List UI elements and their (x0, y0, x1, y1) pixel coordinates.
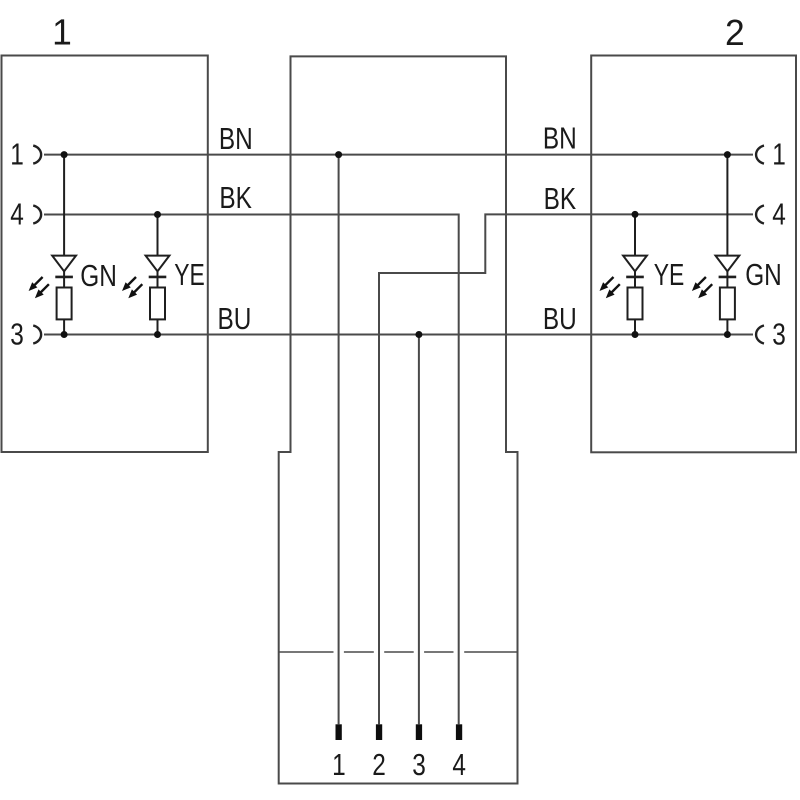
svg-text:BU: BU (543, 302, 577, 336)
svg-text:2: 2 (725, 12, 745, 53)
LED YE right assembly (623, 215, 647, 335)
LED YE left stem top (157, 215, 159, 256)
LED YE right stem bottom (634, 319, 636, 334)
LED GN left cathode bar (55, 276, 73, 279)
LED GN right stem mid (726, 271, 728, 287)
junction BU-LED YE left (154, 331, 161, 338)
wire pin3 drop (418, 335, 420, 725)
svg-text:GN: GN (745, 258, 782, 292)
LED YE right cathode bar (626, 276, 644, 279)
junction BK-LED YE right (632, 211, 639, 218)
LED YE right stem top (634, 215, 636, 256)
wire BK left (44, 215, 459, 725)
svg-text:BK: BK (544, 182, 577, 216)
pin 1 right arc (756, 146, 764, 164)
LED GN left resistor (57, 288, 72, 320)
junction BN-pin1 (335, 151, 342, 158)
LED YE right resistor (628, 288, 643, 320)
LED GN right assembly (716, 155, 740, 335)
pin 3 left arc (33, 326, 41, 344)
LED YE left stem bottom (157, 319, 159, 334)
svg-text:4: 4 (452, 748, 466, 782)
LED GN left stem mid (63, 271, 65, 287)
svg-text:3: 3 (10, 318, 24, 352)
svg-text:3: 3 (772, 318, 786, 352)
svg-text:BU: BU (218, 302, 252, 336)
svg-text:4: 4 (10, 198, 24, 232)
LED YE left stem mid (157, 271, 159, 287)
junction BU-LED GN right (724, 331, 731, 338)
LED GN left assembly (52, 155, 76, 335)
coupler internal divider (279, 651, 518, 653)
LED GN right arrow 2 (698, 284, 712, 298)
svg-text:1: 1 (772, 138, 786, 172)
wire pin1 drop (338, 155, 340, 725)
svg-text:4: 4 (772, 198, 786, 232)
svg-text:3: 3 (412, 748, 426, 782)
wire BK right (379, 214, 753, 724)
pin 3 right arc (756, 326, 764, 344)
wire BN (44, 154, 753, 156)
svg-text:1: 1 (332, 748, 346, 782)
coupler housing outline (279, 56, 518, 783)
LED YE right arrow 2 (606, 284, 620, 298)
junction BU-LED GN left (61, 331, 68, 338)
LED YE left assembly (146, 215, 170, 335)
svg-text:GN: GN (80, 259, 117, 293)
pin 2 terminal (376, 724, 382, 740)
LED GN right stem bottom (726, 319, 728, 334)
junction BU-LED YE right (632, 331, 639, 338)
LED YE left resistor (150, 288, 165, 320)
LED GN left arrow 2 (35, 284, 49, 298)
svg-text:YE: YE (174, 258, 205, 292)
LED YE left arrow 1 (122, 277, 136, 291)
svg-text:1: 1 (10, 138, 24, 172)
junction BU-pin3 (415, 331, 422, 338)
junction BN-LED GN right (724, 151, 731, 158)
pin 1 terminal (336, 724, 342, 740)
svg-text:1: 1 (52, 12, 72, 53)
connector 2 housing box (591, 56, 796, 453)
LED YE right arrow 1 (600, 277, 614, 291)
wire BU (44, 334, 753, 336)
pin 4 right arc (756, 206, 764, 224)
LED YE left triangle (146, 256, 170, 272)
LED GN left stem top (63, 155, 65, 256)
pin 4 left arc (33, 206, 41, 224)
LED YE right stem mid (634, 271, 636, 287)
svg-text:BN: BN (543, 122, 577, 156)
LED YE left cathode bar (149, 276, 167, 279)
LED GN left stem bottom (63, 319, 65, 334)
junction BN-LED GN left (61, 151, 68, 158)
connector 1 housing box (2, 56, 208, 453)
LED GN right resistor (720, 288, 735, 320)
junction BK-LED YE left (154, 211, 161, 218)
svg-text:2: 2 (372, 748, 386, 782)
LED GN left arrow 1 (29, 277, 43, 291)
svg-text:BK: BK (219, 181, 252, 215)
pin 4 terminal (456, 724, 462, 740)
LED YE left arrow 2 (128, 284, 142, 298)
svg-text:BN: BN (219, 122, 253, 156)
LED YE right triangle (623, 256, 647, 272)
svg-text:YE: YE (654, 258, 685, 292)
LED GN right stem top (726, 155, 728, 256)
pin 1 left arc (33, 146, 41, 164)
LED GN left triangle (52, 256, 76, 272)
LED GN right cathode bar (719, 276, 737, 279)
LED GN right arrow 1 (692, 277, 706, 291)
LED GN right triangle (716, 256, 740, 272)
pin 3 terminal (416, 724, 422, 740)
